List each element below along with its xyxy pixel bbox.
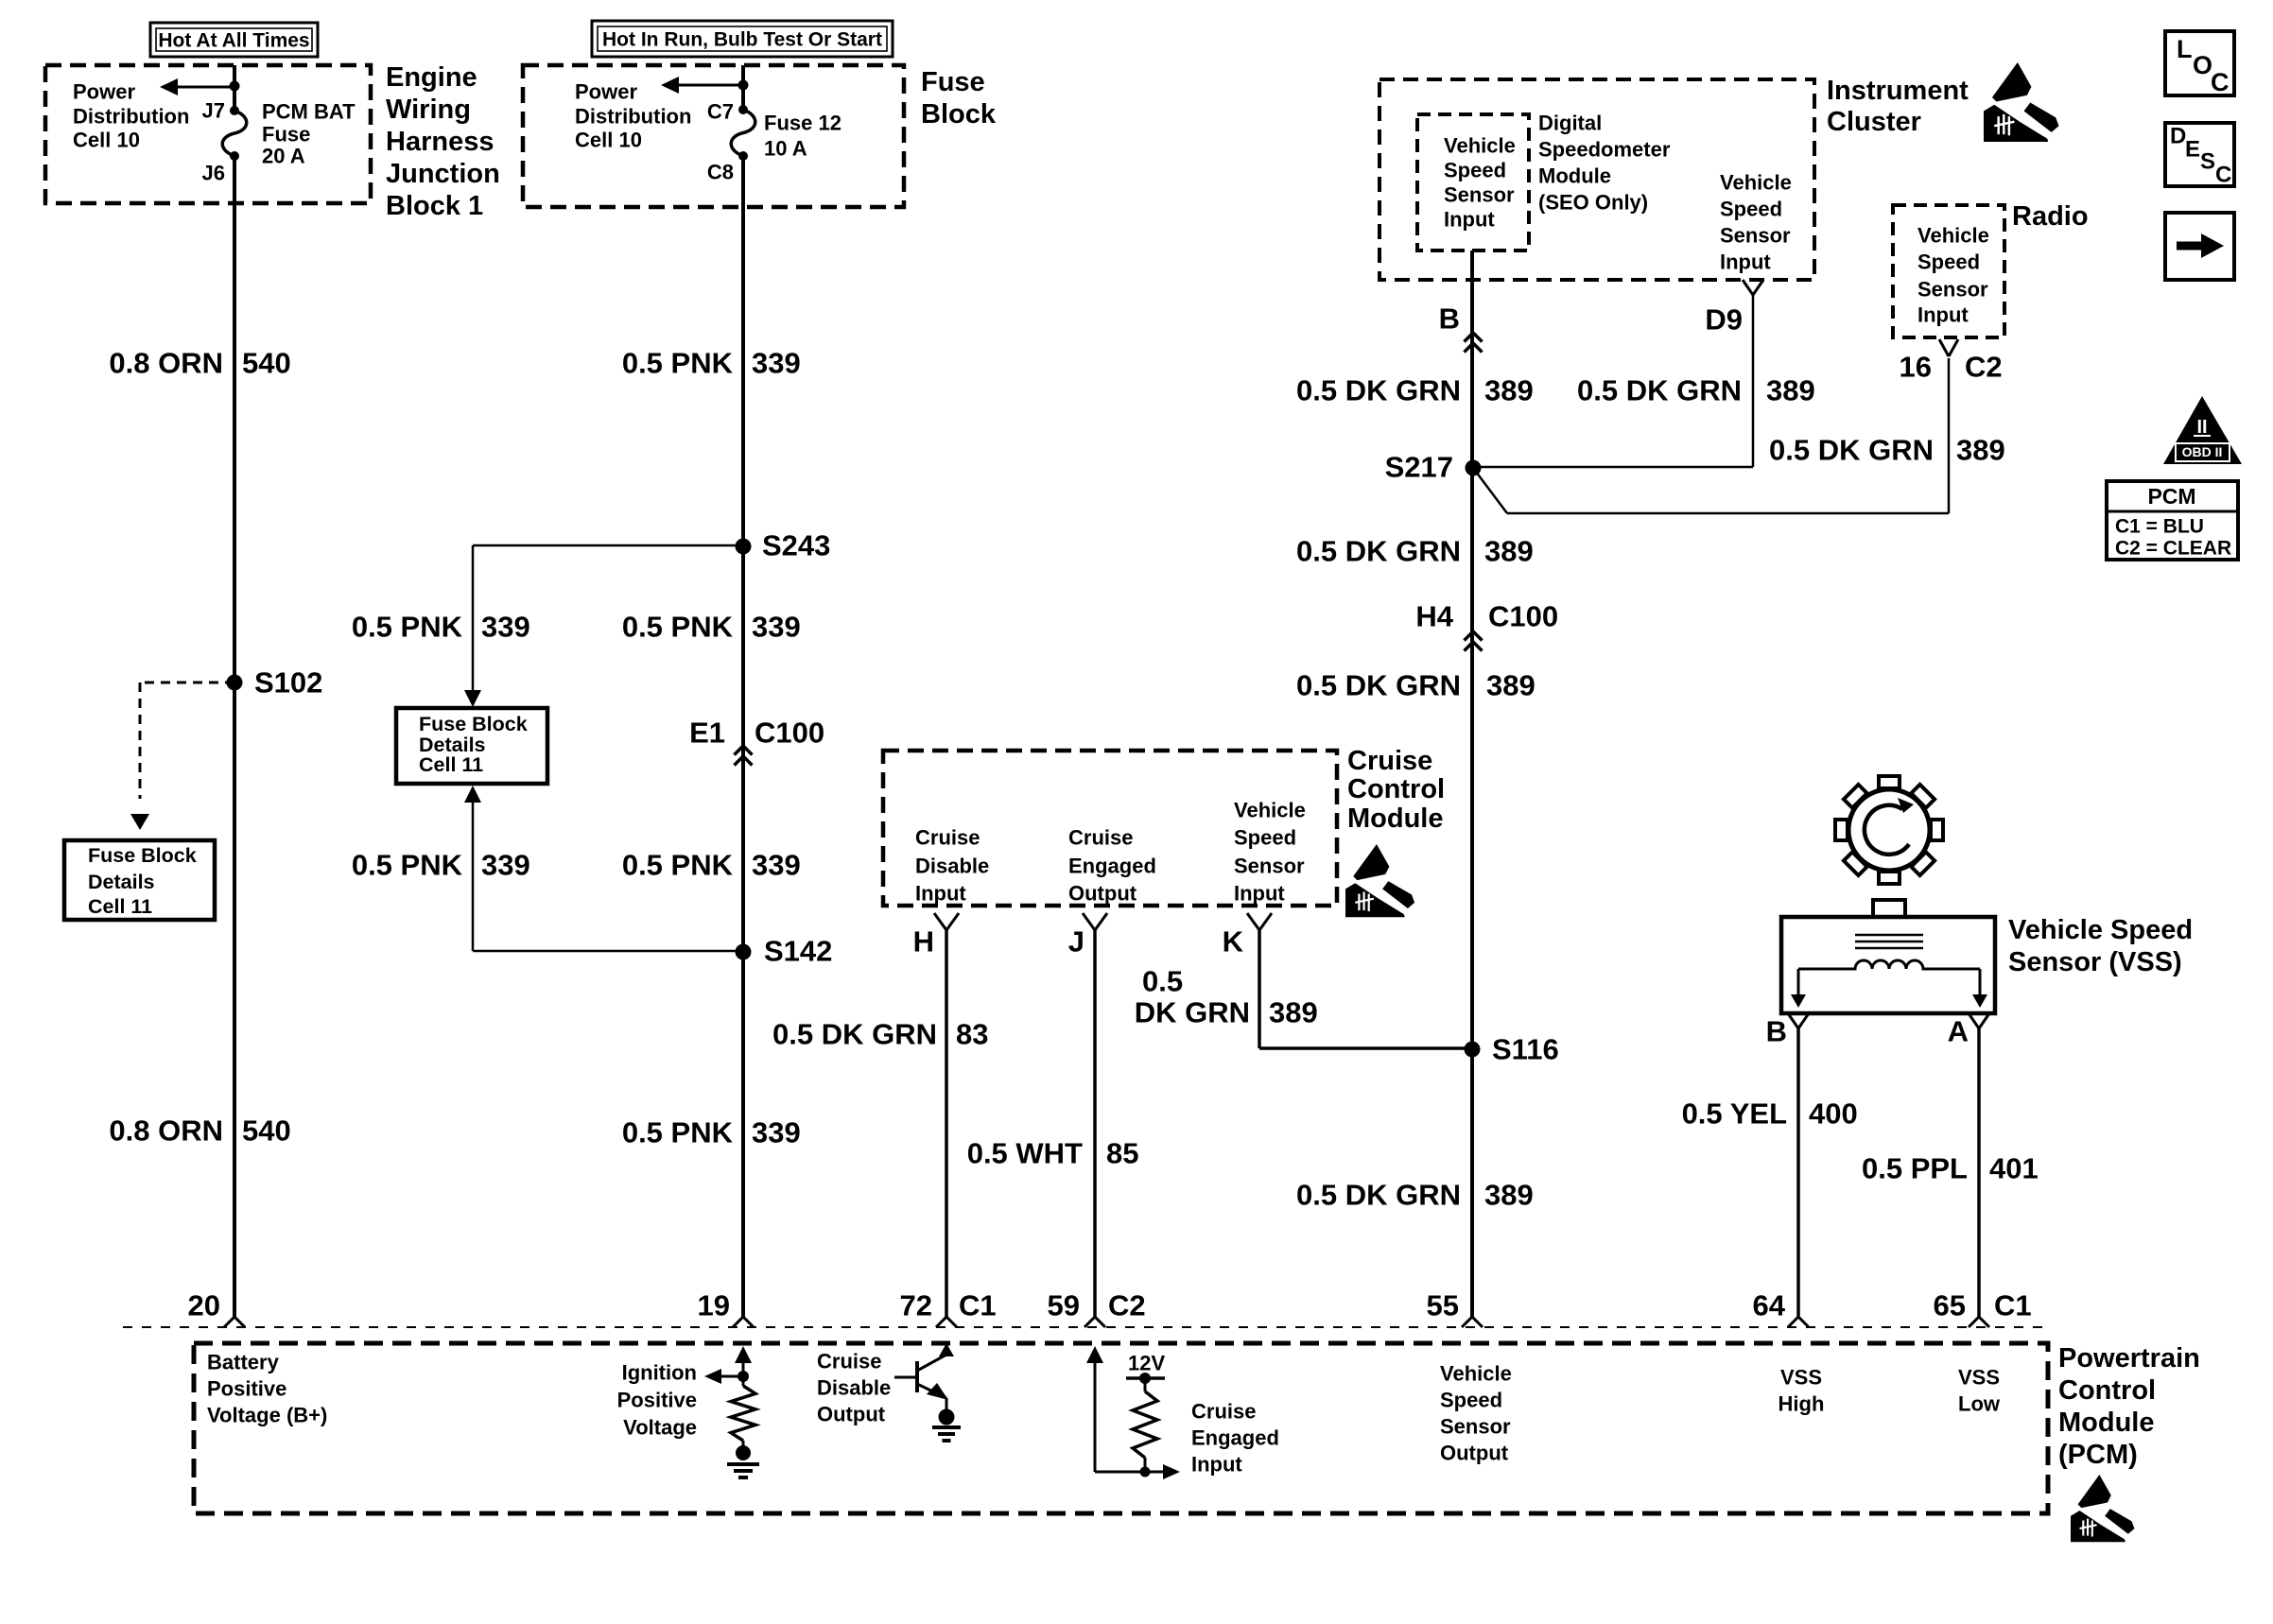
svg-text:C2: C2 [1108,1289,1146,1322]
svg-text:339: 339 [752,347,801,380]
svg-text:VSS: VSS [1780,1366,1822,1390]
svg-text:Power: Power [575,80,637,104]
svg-text:Output: Output [1440,1442,1509,1465]
svg-text:Block 1: Block 1 [386,191,483,221]
svg-text:S102: S102 [254,666,322,700]
svg-text:C2 = CLEAR: C2 = CLEAR [2115,538,2231,560]
svg-text:Vehicle: Vehicle [1720,171,1792,195]
svg-text:55: 55 [1427,1289,1459,1322]
svg-text:389: 389 [1484,1179,1534,1212]
svg-text:Fuse: Fuse [262,123,310,147]
svg-text:Fuse Block: Fuse Block [88,844,197,867]
svg-text:10 A: 10 A [764,137,807,161]
svg-text:C1: C1 [1994,1289,2032,1322]
svg-text:C100: C100 [1488,600,1558,633]
svg-text:J: J [1068,925,1084,959]
svg-text:Distribution: Distribution [73,105,189,129]
svg-text:Positive: Positive [617,1389,697,1412]
svg-text:0.5 DK GRN: 0.5 DK GRN [1296,1179,1461,1212]
svg-text:Speed: Speed [1720,198,1782,221]
svg-text:Sensor (VSS): Sensor (VSS) [2008,947,2182,977]
svg-text:Block: Block [921,99,997,130]
svg-text:20 A: 20 A [262,145,305,168]
svg-text:Input: Input [915,882,966,906]
svg-text:59: 59 [1048,1289,1080,1322]
svg-text:339: 339 [752,1116,801,1149]
svg-text:Powertrain: Powertrain [2058,1343,2200,1373]
svg-text:D: D [2170,124,2186,149]
svg-text:Speedometer: Speedometer [1538,138,1671,162]
svg-text:389: 389 [1269,996,1318,1029]
svg-text:Sensor: Sensor [1234,855,1305,878]
svg-text:Radio: Radio [2012,201,2089,232]
svg-text:0.5 DK GRN: 0.5 DK GRN [772,1018,937,1051]
svg-text:Hot At All Times: Hot At All Times [158,30,309,52]
svg-text:65: 65 [1934,1289,1966,1322]
svg-text:Ignition: Ignition [622,1361,697,1385]
svg-text:J7: J7 [202,99,225,123]
svg-text:Power: Power [73,80,135,104]
svg-text:E1: E1 [689,717,725,750]
svg-text:DK GRN: DK GRN [1135,996,1250,1029]
svg-text:0.5 PNK: 0.5 PNK [622,1116,734,1149]
svg-text:389: 389 [1956,434,2005,467]
svg-text:0.5 YEL: 0.5 YEL [1682,1097,1787,1131]
svg-text:16: 16 [1900,351,1932,384]
svg-text:S116: S116 [1492,1033,1559,1066]
svg-text:0.5 PNK: 0.5 PNK [622,849,734,882]
svg-text:0.8 ORN: 0.8 ORN [109,1114,223,1148]
svg-text:Module: Module [1347,803,1444,834]
svg-text:S217: S217 [1385,451,1453,484]
svg-text:400: 400 [1809,1097,1858,1131]
svg-text:Cruise: Cruise [817,1350,881,1373]
svg-text:Cruise: Cruise [1347,746,1432,776]
svg-text:0.5 DK GRN: 0.5 DK GRN [1296,669,1461,702]
svg-text:72: 72 [900,1289,932,1322]
svg-text:C: C [2211,68,2230,96]
svg-text:Cruise: Cruise [1068,826,1133,850]
svg-text:339: 339 [481,611,530,644]
svg-text:Details: Details [88,871,155,893]
svg-text:Engaged: Engaged [1068,855,1156,878]
svg-text:Output: Output [1068,882,1137,906]
svg-text:Disable: Disable [915,855,989,878]
svg-text:H: H [913,925,934,959]
svg-text:Speed: Speed [1234,826,1296,850]
svg-text:389: 389 [1486,669,1536,702]
svg-text:Vehicle Speed: Vehicle Speed [2008,915,2193,945]
svg-text:(SEO Only): (SEO Only) [1538,191,1648,215]
svg-text:Low: Low [1958,1392,2001,1416]
svg-text:0.8 ORN: 0.8 ORN [109,347,223,380]
svg-text:L: L [2177,35,2193,63]
svg-text:Distribution: Distribution [575,105,691,129]
svg-text:Cruise: Cruise [1191,1400,1256,1424]
svg-text:0.5 PPL: 0.5 PPL [1862,1152,1968,1185]
svg-text:Cell 10: Cell 10 [73,129,140,152]
svg-text:0.5 PNK: 0.5 PNK [622,347,734,380]
svg-text:389: 389 [1766,374,1815,407]
svg-text:Sensor: Sensor [1917,278,1988,302]
svg-text:Input: Input [1720,251,1771,274]
svg-text:Fuse: Fuse [921,67,985,97]
svg-text:Input: Input [1234,882,1285,906]
svg-text:12V: 12V [1128,1352,1165,1375]
svg-text:19: 19 [698,1289,730,1322]
svg-text:64: 64 [1753,1289,1786,1322]
svg-text:Wiring: Wiring [386,95,471,125]
svg-text:Harness: Harness [386,127,494,157]
svg-text:J6: J6 [202,162,225,185]
svg-text:K: K [1223,925,1244,959]
svg-text:Sensor: Sensor [1444,183,1515,207]
svg-text:0.5 DK GRN: 0.5 DK GRN [1769,434,1934,467]
svg-text:Instrument: Instrument [1827,76,1969,106]
svg-text:S: S [2200,149,2215,175]
svg-text:Input: Input [1191,1453,1242,1477]
svg-text:C8: C8 [707,161,734,184]
svg-text:A: A [1948,1015,1969,1048]
svg-text:20: 20 [188,1289,220,1322]
svg-text:0.5 DK GRN: 0.5 DK GRN [1577,374,1742,407]
svg-text:0.5 WHT: 0.5 WHT [967,1137,1083,1170]
svg-text:D9: D9 [1705,303,1743,337]
svg-text:Input: Input [1444,208,1495,232]
svg-text:E: E [2185,137,2200,163]
svg-text:C2: C2 [1965,351,2003,384]
svg-text:339: 339 [752,611,801,644]
svg-text:Vehicle: Vehicle [1440,1362,1512,1386]
svg-text:0.5 PNK: 0.5 PNK [622,611,734,644]
svg-text:C100: C100 [755,717,824,750]
svg-text:0.5: 0.5 [1142,965,1183,998]
svg-text:Junction: Junction [386,159,500,189]
svg-text:High: High [1778,1392,1825,1416]
svg-text:Control: Control [1347,774,1445,804]
svg-text:Battery: Battery [207,1351,280,1374]
svg-text:C1 = BLU: C1 = BLU [2115,516,2204,538]
svg-text:83: 83 [956,1018,988,1051]
svg-text:85: 85 [1106,1137,1138,1170]
svg-text:Fuse 12: Fuse 12 [764,112,842,135]
svg-text:Positive: Positive [207,1377,286,1401]
svg-text:(PCM): (PCM) [2058,1440,2138,1470]
svg-text:Engaged: Engaged [1191,1426,1279,1450]
svg-text:Cell 11: Cell 11 [419,753,483,776]
svg-text:S243: S243 [762,529,830,562]
svg-text:Voltage: Voltage [623,1416,697,1440]
svg-text:Output: Output [817,1403,886,1426]
svg-text:H4: H4 [1415,600,1453,633]
svg-text:Cluster: Cluster [1827,107,1921,137]
svg-text:C: C [2215,163,2231,188]
svg-text:Control: Control [2058,1375,2156,1406]
svg-text:B: B [1439,302,1460,336]
svg-text:0.5 PNK: 0.5 PNK [352,611,463,644]
svg-text:Voltage (B+): Voltage (B+) [207,1404,327,1427]
svg-text:PCM: PCM [2147,484,2195,509]
svg-text:Cruise: Cruise [915,826,980,850]
svg-text:II: II [2196,417,2207,438]
svg-text:Hot In Run, Bulb Test Or Start: Hot In Run, Bulb Test Or Start [602,29,882,51]
svg-text:B: B [1766,1015,1787,1048]
svg-text:S142: S142 [764,935,832,968]
svg-text:Vehicle: Vehicle [1444,134,1516,158]
svg-text:Disable: Disable [817,1376,891,1400]
svg-text:540: 540 [242,347,291,380]
svg-text:O: O [2193,51,2212,79]
svg-text:389: 389 [1484,535,1534,568]
svg-text:Cell 11: Cell 11 [88,895,152,918]
svg-text:Module: Module [2058,1408,2155,1438]
svg-text:339: 339 [752,849,801,882]
svg-text:VSS: VSS [1958,1366,2000,1390]
svg-text:Digital: Digital [1538,112,1602,135]
svg-text:PCM BAT: PCM BAT [262,100,356,124]
svg-text:Vehicle: Vehicle [1234,799,1306,822]
svg-text:0.5 PNK: 0.5 PNK [352,849,463,882]
svg-text:Sensor: Sensor [1720,224,1791,248]
svg-text:C1: C1 [959,1289,997,1322]
svg-text:Speed: Speed [1444,159,1506,182]
svg-text:339: 339 [481,849,530,882]
svg-text:Input: Input [1917,303,1969,327]
svg-text:Vehicle: Vehicle [1917,224,1989,248]
svg-text:0.5 DK GRN: 0.5 DK GRN [1296,535,1461,568]
svg-text:Fuse Block: Fuse Block [419,713,528,735]
svg-text:0.5 DK GRN: 0.5 DK GRN [1296,374,1461,407]
svg-text:Speed: Speed [1440,1389,1502,1412]
svg-text:Module: Module [1538,164,1611,188]
svg-text:540: 540 [242,1114,291,1148]
svg-text:C7: C7 [707,100,734,124]
svg-text:Engine: Engine [386,62,477,93]
svg-text:Sensor: Sensor [1440,1415,1511,1439]
svg-text:OBD II: OBD II [2182,444,2223,459]
svg-text:401: 401 [1989,1152,2039,1185]
svg-text:Cell 10: Cell 10 [575,129,642,152]
svg-text:Speed: Speed [1917,251,1980,274]
svg-text:389: 389 [1484,374,1534,407]
